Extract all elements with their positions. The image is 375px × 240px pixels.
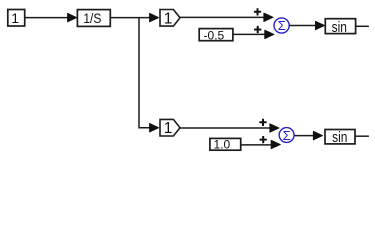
plus sign (bottom summer, input 2) [260,136,267,143]
svg-text:sin: sin [332,129,347,146]
integrator block 1/S [77,10,110,27]
constant block "1" [8,10,25,27]
constant block "-0.5" [199,29,233,43]
arrowhead into top summer (upper) [264,13,273,22]
arrowhead into integrator [68,13,77,22]
svg-text:1/S: 1/S [83,10,101,26]
svg-text:Σ: Σ [278,18,286,33]
sin block (bottom) [325,129,355,146]
wire bottom summer to sin [295,135,316,137]
arrowhead into bottom sin [313,131,322,140]
svg-text:Σ: Σ [283,128,291,143]
wire top gain to summer [180,16,265,18]
svg-text:1.0: 1.0 [214,138,231,152]
wire integrator to gain 1 (top) [110,17,151,19]
arrowhead into bottom summer (upper) [270,124,279,133]
plus sign (bottom summer, input 1) [259,119,266,126]
svg-text:-0.5: -0.5 [204,29,225,43]
svg-text:1: 1 [164,120,173,137]
arrowhead into top summer (lower) [265,30,274,39]
arrowhead into top sin [315,21,324,30]
wire top summer to sin [289,25,317,27]
summer block (top) [274,18,289,33]
svg-text:sin: sin [332,19,347,36]
branch wire down [139,18,151,128]
wire -0.5 to summer [233,33,266,35]
output wire (bottom) [355,135,369,137]
wire 1.0 to summer [241,144,271,146]
gain block "1" bottom (pentagon) [160,119,180,137]
svg-text:1: 1 [11,10,19,26]
summer block (bottom) [279,128,294,143]
gain block "1" top (pentagon) [160,10,180,28]
arrowhead into bottom gain [150,123,159,132]
plus sign (top summer, input 2) [254,26,261,33]
arrowhead into bottom summer (lower) [271,140,280,149]
svg-text:1: 1 [164,10,173,27]
wire bottom gain to summer [180,127,271,129]
plus sign (top summer, input 1) [254,8,261,15]
sin block (top) [325,19,355,36]
output wire (top) [356,25,369,27]
wire constant to integrator [25,17,69,19]
constant block "1.0" [210,138,241,152]
arrowhead into top gain [150,13,159,22]
